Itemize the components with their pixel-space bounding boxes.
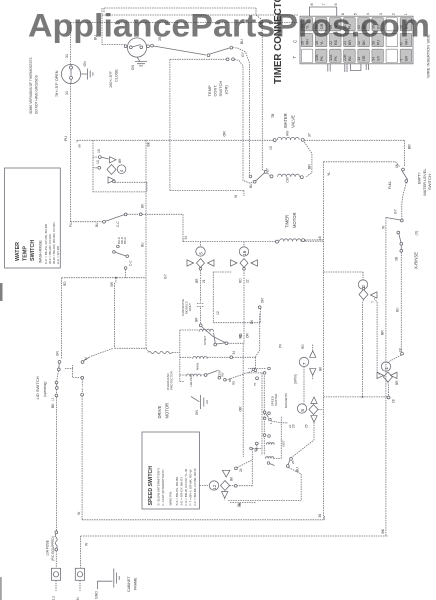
svg-text:7: 7	[322, 3, 326, 5]
svg-text:TB: TB	[271, 113, 275, 118]
wire BK down to fuse	[55, 397, 57, 531]
svg-text:BR: BR	[408, 144, 412, 149]
svg-text:10A FUSE: 10A FUSE	[46, 539, 50, 556]
svg-text:18: 18	[395, 164, 399, 168]
wire from WLS down	[402, 183, 407, 220]
wire lid to motor	[146, 348, 148, 351]
svg-text:BR: BR	[195, 278, 199, 283]
label cabinet frame	[127, 576, 138, 592]
svg-text:12: 12	[216, 311, 220, 315]
svg-text:GY: GY	[376, 55, 380, 61]
svg-text:F-S = BR-W, GY-OR, YL-W: F-S = BR-W, GY-OR, YL-W	[184, 469, 188, 506]
timer connector bottom tabs	[328, 64, 369, 72]
svg-text:100+/-5°F: 100+/-5°F	[109, 70, 113, 88]
svg-text:C-C: C-C	[116, 221, 120, 227]
svg-text:S-E = OR-GY, BK-GY: S-E = OR-GY, BK-GY	[180, 477, 184, 506]
wire cam12 links	[199, 449, 252, 501]
svg-text:SWITCH: SWITCH	[218, 81, 223, 97]
svg-text:F- FAST (INTERMITTENT): F- FAST (INTERMITTENT)	[161, 470, 165, 506]
svg-text:31: 31	[65, 91, 69, 95]
svg-text:OR: OR	[246, 333, 250, 338]
wire x-rinse chain down	[400, 252, 402, 352]
motor helper winding	[186, 369, 235, 386]
svg-text:WASH-RINSE: WASH-RINSE	[39, 240, 43, 263]
svg-text:13: 13	[96, 160, 100, 164]
timer cam 7	[294, 344, 323, 384]
svg-text:PROTECTOR: PROTECTOR	[170, 370, 174, 390]
wire OR top run	[104, 8, 262, 20]
svg-text:GY: GY	[394, 208, 398, 214]
svg-text:PK: PK	[320, 56, 324, 61]
timer cam 8	[292, 397, 319, 428]
svg-text:T: T	[292, 56, 297, 59]
svg-text:BR: BR	[110, 281, 114, 286]
svg-text:YL: YL	[327, 172, 331, 176]
svg-text:78+/-5°F OPEN: 78+/-5°F OPEN	[55, 70, 59, 97]
timer cam 1	[377, 362, 399, 385]
svg-text:34: 34	[371, 57, 375, 61]
svg-text:32A: 32A	[329, 54, 333, 61]
timer connector pin numbers top tab	[310, 3, 338, 5]
svg-text:RD: RD	[239, 278, 243, 283]
wire riser to contact block	[170, 59, 244, 196]
svg-text:13: 13	[357, 57, 361, 61]
svg-text:RD: RD	[239, 333, 243, 338]
wire OR main bus	[77, 140, 405, 143]
svg-text:OR: OR	[239, 406, 243, 412]
connector block N	[75, 568, 84, 600]
wire BR right riser	[404, 140, 406, 166]
svg-text:CLOSE: CLOSE	[115, 69, 119, 82]
water valve cold coil	[266, 168, 304, 182]
wire bottom bus A	[82, 516, 324, 520]
svg-text:PK: PK	[334, 56, 338, 61]
svg-text:F-T = BR-Y, OR-BK, RD-W: F-T = BR-Y, OR-BK, RD-W	[189, 470, 193, 506]
ground at 100F thermostat	[131, 57, 147, 70]
svg-text:GN: GN	[56, 351, 60, 356]
svg-text:SWITCH: SWITCH	[30, 240, 36, 261]
svg-text:BR: BR	[405, 56, 409, 61]
label temp cont switch	[207, 81, 229, 97]
wire bottom bus B	[80, 536, 388, 591]
svg-text:FRAME: FRAME	[134, 577, 138, 590]
fuse 10A	[46, 531, 58, 561]
svg-text:L1: L1	[51, 397, 55, 401]
svg-text:OR: OR	[223, 131, 227, 137]
svg-text:15: 15	[97, 149, 101, 153]
svg-text:25: 25	[291, 460, 295, 464]
svg-text:GY: GY	[164, 273, 168, 279]
svg-text:BK: BK	[348, 56, 352, 61]
svg-text:GY: GY	[241, 51, 245, 57]
svg-text:AGIT: AGIT	[282, 440, 286, 447]
svg-text:18: 18	[392, 399, 396, 403]
svg-text:GN: GN	[131, 64, 135, 70]
svg-text:X-RINSE: X-RINSE	[414, 252, 419, 269]
svg-text:DO NOT HAVE GROUNDS: DO NOT HAVE GROUNDS	[35, 75, 39, 114]
svg-text:MAGNETIC: MAGNETIC	[284, 393, 288, 408]
wire cam16 chain down	[243, 278, 245, 344]
svg-text:S-S = BR-PU, RD-BK: S-S = BR-PU, RD-BK	[175, 477, 179, 506]
svg-text:12: 12	[212, 484, 217, 490]
svg-text:16: 16	[318, 236, 322, 240]
svg-text:HW: HW	[286, 131, 290, 136]
svg-text:75: 75	[253, 382, 257, 386]
wire cam8 ties	[292, 397, 324, 458]
svg-text:GN: GN	[195, 410, 199, 415]
connector block L1	[51, 551, 60, 600]
svg-text:(X): (X)	[415, 231, 419, 236]
svg-text:22: 22	[246, 279, 250, 283]
svg-text:23: 23	[288, 424, 292, 428]
svg-text:32B: 32B	[315, 54, 319, 61]
svg-text:31: 31	[65, 54, 69, 58]
svg-text:BK: BK	[51, 403, 55, 408]
water valve hot coil	[269, 131, 312, 150]
svg-text:AppliancePartsPros.com: AppliancePartsPros.com	[28, 8, 430, 44]
svg-text:C-C: C-C	[129, 260, 133, 266]
svg-text:21: 21	[202, 279, 206, 283]
wire cam2 BR branch	[374, 298, 380, 375]
svg-text:15: 15	[269, 146, 273, 150]
scan edge marks	[0, 283, 3, 600]
lid switch	[55, 348, 113, 397]
wire throw2 down	[234, 59, 253, 183]
svg-text:H-C = GY-RD: H-C = GY-RD	[56, 245, 60, 264]
svg-text:TEMP: TEMP	[207, 85, 212, 96]
wire motor right links	[226, 314, 260, 381]
label drive motor	[157, 403, 170, 419]
label compact models only	[181, 299, 192, 316]
thermostat 100F CLOSE	[109, 38, 149, 88]
cabinet ground	[95, 569, 120, 600]
wire left bus to lid switch	[61, 278, 63, 360]
svg-text:23: 23	[292, 424, 296, 428]
svg-text:DRIVE: DRIVE	[157, 405, 162, 418]
svg-text:WATER: WATER	[283, 113, 288, 128]
wire motor bus	[183, 238, 323, 242]
svg-text:SWITCH: SWITCH	[427, 174, 432, 190]
svg-text:MOTOR: MOTOR	[292, 212, 297, 228]
svg-text:GN: GN	[83, 61, 87, 67]
svg-text:8: 8	[300, 409, 305, 412]
svg-text:M: M	[84, 357, 88, 360]
timer cam 16	[231, 242, 258, 283]
wire motor box left	[172, 330, 199, 381]
water temp switch contacts row3	[113, 237, 133, 278]
svg-text:22B: 22B	[343, 54, 347, 61]
wire valve right branch	[304, 142, 312, 177]
wire cam5-cam16 link	[213, 272, 260, 323]
svg-text:(SPIN): (SPIN)	[294, 374, 298, 384]
svg-text:START: START	[203, 336, 207, 345]
motor ground	[191, 395, 207, 415]
svg-text:(P/C EQUIPPED): (P/C EQUIPPED)	[51, 536, 55, 561]
spin solenoid switch	[286, 458, 299, 473]
ground at 78F thermostat	[81, 61, 93, 80]
overload protector	[148, 351, 174, 390]
svg-text:CONT.: CONT.	[213, 85, 218, 97]
svg-text:37: 37	[308, 133, 312, 137]
wire YL main bus	[323, 162, 399, 520]
wire lower junction row	[62, 277, 146, 287]
svg-text:WATER: WATER	[15, 242, 21, 261]
svg-text:MOTOR: MOTOR	[165, 403, 170, 419]
svg-text:HELPER: HELPER	[189, 375, 193, 387]
timer motor coil	[276, 236, 323, 243]
svg-text:(operating): (operating)	[43, 382, 47, 397]
temp control switch	[151, 37, 245, 61]
timer connector pin numbers 6..1	[341, 13, 408, 15]
wire to bottom link	[228, 468, 301, 501]
svg-text:BR: BR	[381, 330, 385, 335]
svg-text:PU: PU	[69, 222, 73, 227]
svg-text:34: 34	[232, 351, 236, 355]
wire mid riser to motor	[115, 283, 147, 348]
svg-text:25: 25	[305, 424, 309, 428]
wire cam7 ties	[304, 344, 313, 404]
wire throw1 down	[233, 48, 250, 175]
svg-text:ONLY: ONLY	[188, 303, 192, 311]
svg-text:BU: BU	[141, 242, 145, 247]
svg-text:EMPTY: EMPTY	[418, 172, 422, 184]
label speed shifter	[271, 393, 289, 408]
wire W down right pole	[81, 396, 83, 520]
svg-text:PU: PU	[64, 136, 68, 141]
wire BU riser to cold coil	[262, 20, 270, 176]
svg-text:BR: BR	[308, 164, 312, 169]
svg-text:6: 6	[334, 3, 338, 5]
svg-text:OR: OR	[362, 55, 366, 61]
svg-text:BR: BR	[118, 158, 122, 163]
wire cam1 down	[387, 382, 390, 397]
svg-text:RD: RD	[301, 344, 305, 349]
svg-text:LID SWITCH: LID SWITCH	[35, 376, 40, 399]
timer cam 12	[209, 476, 233, 498]
label timer motor	[285, 212, 298, 228]
label water valve	[283, 113, 296, 128]
timer connector shell	[300, 7, 413, 64]
label x-rinse	[414, 231, 419, 269]
svg-text:TIMER: TIMER	[285, 215, 290, 228]
svg-text:CABINET: CABINET	[127, 576, 131, 592]
svg-text:3B: 3B	[395, 257, 399, 261]
x-rinse top switch	[386, 208, 403, 252]
wire GY from switch	[170, 58, 226, 60]
wire cam5 chain down	[197, 278, 204, 325]
svg-text:CW: CW	[286, 177, 290, 182]
svg-text:18: 18	[399, 348, 403, 352]
motor main winding	[193, 351, 256, 370]
svg-text:16: 16	[242, 250, 247, 256]
svg-text:OR: OR	[261, 298, 265, 303]
svg-text:SPEED SWITCH: SPEED SWITCH	[148, 466, 154, 506]
svg-text:36: 36	[318, 514, 322, 518]
svg-text:F-F = BR-BK, GY-BK, RD-B: F-F = BR-BK, GY-BK, RD-B	[193, 469, 197, 506]
wire BK block bus	[145, 140, 147, 348]
svg-text:VALVE: VALVE	[291, 115, 296, 128]
svg-text:(OR): (OR)	[224, 85, 229, 94]
label lid switch	[35, 376, 55, 401]
svg-text:SOME VERSIONS OF THERMOSTATS: SOME VERSIONS OF THERMOSTATS	[29, 58, 33, 115]
svg-text:BK: BK	[147, 141, 151, 146]
wire 24 tie	[237, 343, 256, 467]
motor start winding	[199, 329, 243, 346]
svg-text:RD: RD	[63, 281, 67, 286]
svg-text:5: 5	[198, 252, 203, 255]
wire PU left riser	[69, 22, 71, 221]
timer cam 2	[358, 280, 377, 303]
water level switch	[388, 164, 422, 189]
svg-text:T: T	[371, 301, 375, 303]
svg-text:8: 8	[310, 3, 314, 5]
agitate coils	[250, 434, 295, 466]
contact 24	[222, 442, 258, 477]
svg-text:BK: BK	[78, 144, 82, 148]
speed shifter twin bus	[248, 369, 266, 456]
svg-text:1: 1	[384, 367, 389, 370]
timer cam 5	[187, 242, 214, 283]
svg-text:TEMP: TEMP	[23, 246, 29, 261]
cold valve switch cluster	[249, 171, 267, 184]
wire to cam1	[388, 355, 402, 363]
svg-text:BU: BU	[249, 183, 253, 188]
wire upper bus to connector	[70, 21, 298, 23]
note some versions of thermostats	[29, 58, 39, 115]
water temp switch legend box	[5, 168, 61, 268]
thermostat 78F OPEN	[55, 54, 81, 97]
timer connector cells	[301, 18, 412, 63]
spin blade lower	[270, 464, 275, 466]
timer connector row labels T C	[292, 40, 298, 59]
svg-text:BK: BK	[381, 528, 385, 533]
svg-text:BR: BR	[195, 317, 199, 322]
speed shifter top terminals	[252, 367, 270, 386]
svg-text:BR: BR	[395, 380, 399, 385]
label water level switch	[422, 168, 432, 196]
wire 3A bottom stub	[230, 501, 256, 503]
wire cam2 feed	[323, 272, 363, 280]
svg-text:FULL: FULL	[388, 181, 392, 189]
svg-text:WIRE P/N:: WIRE P/N:	[169, 491, 173, 506]
svg-text:MAIN: MAIN	[196, 363, 200, 370]
svg-text:24: 24	[239, 468, 243, 472]
svg-text:L1: L1	[52, 596, 56, 600]
speed shifter contacts	[263, 411, 292, 440]
svg-text:7: 7	[302, 362, 307, 365]
wire W left of x-rinse	[385, 218, 387, 537]
water temp switch contacts	[93, 140, 147, 192]
svg-text:SHIFTER: SHIFTER	[274, 394, 278, 406]
svg-text:34: 34	[184, 236, 188, 240]
svg-text:BU: BU	[396, 307, 400, 312]
wire junction bus	[323, 396, 388, 398]
svg-text:BU: BU	[95, 222, 99, 227]
svg-text:GND: GND	[95, 591, 99, 599]
speed switch box	[142, 432, 199, 509]
water temp switch contacts row2	[69, 213, 188, 242]
wire cam2 diamond down	[363, 300, 364, 397]
svg-text:S- SLOW (INTERMITTENT): S- SLOW (INTERMITTENT)	[157, 468, 161, 506]
svg-text:BK-R: BK-R	[123, 237, 127, 244]
svg-text:SW: SW	[221, 372, 225, 377]
wire BU riser to 100F stat	[102, 8, 298, 46]
